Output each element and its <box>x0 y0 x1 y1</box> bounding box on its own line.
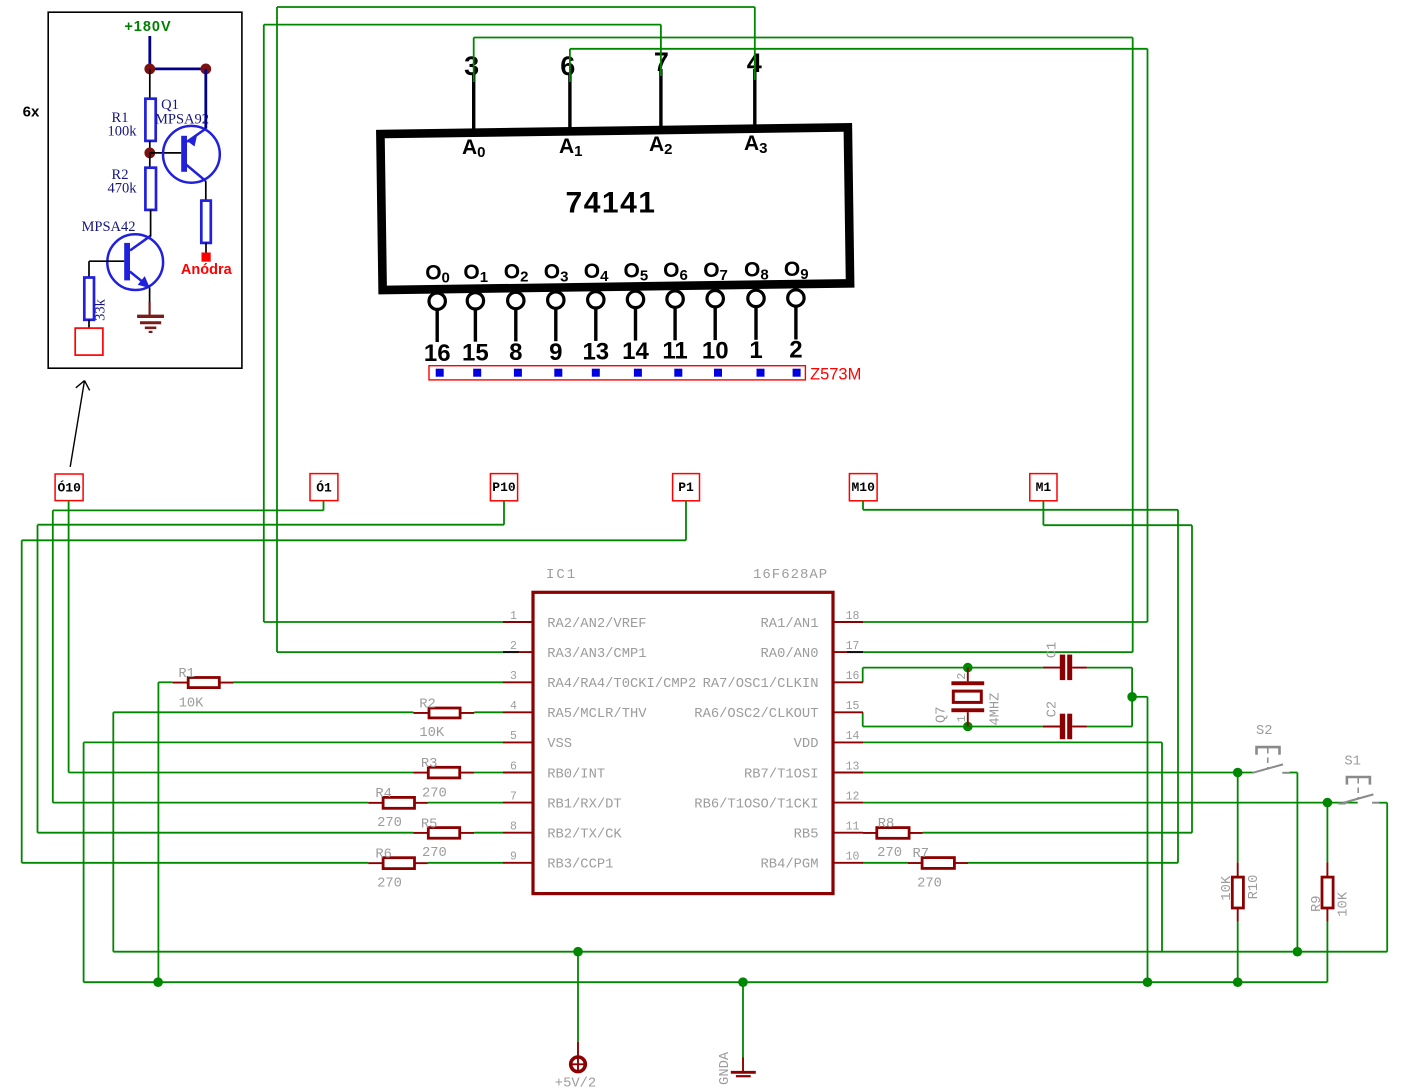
pin O6 circle <box>673 286 676 291</box>
svg-text:IC1: IC1 <box>546 567 577 583</box>
pin 10 RB4/PGM <box>833 862 863 864</box>
svg-text:270: 270 <box>377 816 402 831</box>
svg-text:Ó1: Ó1 <box>316 481 332 496</box>
wire R1 bottom to base node <box>149 141 151 153</box>
transistor Q2 MPSA42 (NPN) <box>107 234 163 290</box>
wire net A2 to RA2 <box>264 621 503 623</box>
wire +180V vertical (navy) <box>148 36 151 69</box>
pin A3 stub <box>753 69 756 130</box>
wire P1 to R6 <box>22 862 369 864</box>
svg-text:14: 14 <box>846 730 860 743</box>
wire O10 to R3 <box>69 772 414 774</box>
pin 12 RB6/T1OSO/T1CKI <box>833 802 863 804</box>
svg-text:Ó10: Ó10 <box>57 481 81 496</box>
resistor R3 270 <box>413 772 428 774</box>
wire S1 to +5V rail <box>1386 803 1388 952</box>
junction <box>1127 692 1137 702</box>
wire R9 to GND rail <box>1326 922 1328 983</box>
pin 16 RA7/OSC1/CLKIN <box>833 681 863 683</box>
junction node at R1 top <box>144 64 155 75</box>
junction <box>738 977 748 987</box>
wire R2 bottom to Q2 collector <box>150 210 152 237</box>
wire base corner down to 33k <box>88 261 90 277</box>
wire VDD row <box>863 741 1162 743</box>
svg-text:8: 8 <box>510 821 517 834</box>
anode pad (red square) <box>202 253 211 262</box>
svg-text:RB7/T1OSI: RB7/T1OSI <box>744 766 819 782</box>
svg-text:16F628AP: 16F628AP <box>753 567 828 583</box>
pin O0 circle <box>436 291 439 294</box>
junction <box>573 947 583 957</box>
svg-text:13: 13 <box>846 760 860 773</box>
svg-text:470k: 470k <box>108 181 138 197</box>
resistor R1 10K <box>173 682 189 684</box>
wire net A2 top run <box>264 24 661 26</box>
wire pin15 dropper <box>862 712 864 726</box>
node M1 <box>1030 474 1057 501</box>
pointer arrow to Ó10 <box>70 381 90 467</box>
junction <box>1323 798 1333 808</box>
Z573M connector outline <box>429 366 805 380</box>
pin 4 RA5/MCLR/THV <box>503 711 533 713</box>
svg-text:6: 6 <box>510 760 517 773</box>
svg-text:33k: 33k <box>93 298 109 321</box>
wire P10 drop to RB2 row <box>37 525 39 833</box>
resistor R5 270 <box>413 832 428 834</box>
junction <box>1143 977 1153 987</box>
pin A1 stub <box>568 73 571 132</box>
resistor R9 10K <box>1326 862 1328 877</box>
junction <box>153 977 163 987</box>
Z573M pin square 1 <box>436 369 444 377</box>
wire Q2 base left <box>89 260 124 262</box>
wire +5V rail <box>113 951 1387 953</box>
wire S2 to +5V rail <box>1296 773 1298 952</box>
wire net A3 to RA3 <box>277 651 503 653</box>
pin 3 RA4/RA4/T0CKI/CMP2 <box>503 681 533 683</box>
svg-text:10: 10 <box>702 337 729 364</box>
wire P1 drop to RB3 row <box>21 540 23 863</box>
IC 74141 body <box>380 127 850 290</box>
svg-text:6: 6 <box>560 51 575 81</box>
svg-text:RA6/OSC2/CLKOUT: RA6/OSC2/CLKOUT <box>694 706 818 722</box>
resistor R8 270 <box>863 832 877 834</box>
wire MCLR drop to +5V rail <box>112 712 114 951</box>
svg-text:R3: R3 <box>421 757 438 772</box>
anode resistor <box>201 201 211 243</box>
op-amp IC1 16F628AP body <box>533 592 833 893</box>
wire M10 drop to RB4 row <box>1177 510 1179 863</box>
wire anode resistor to anode pad <box>205 243 207 253</box>
pin 8 RB2/TX/CK <box>503 832 533 834</box>
pin 11 RB5 <box>833 832 863 834</box>
svg-text:R7: R7 <box>913 847 930 862</box>
Z573M pin square 10 <box>793 369 801 377</box>
resistor R4 270 <box>368 802 383 804</box>
pin O1 circle <box>474 290 477 293</box>
wire S2 right stub <box>1290 772 1298 774</box>
Z573M pin square 2 <box>473 369 481 377</box>
pin 2 RA3/AN3/CMP1 <box>503 651 533 653</box>
node Ó1 <box>310 474 338 501</box>
svg-text:270: 270 <box>422 846 447 861</box>
pin O4 circle <box>594 288 597 292</box>
svg-text:16: 16 <box>424 340 451 367</box>
svg-text:10K: 10K <box>419 726 445 741</box>
pin O3 circle <box>554 288 557 292</box>
svg-text:RA1/AN1: RA1/AN1 <box>761 616 819 632</box>
svg-text:270: 270 <box>377 876 402 891</box>
crystal Q7 4MHZ <box>967 668 969 682</box>
pin O7 circle <box>714 285 717 290</box>
svg-text:RB0/INT: RB0/INT <box>547 766 605 782</box>
pin 13 RB7/T1OSI <box>833 772 863 774</box>
pin 18 RA1/AN1 <box>833 621 863 623</box>
svg-text:Z573M: Z573M <box>810 366 861 384</box>
wire C1 drop to join <box>1131 668 1133 697</box>
wire M10 drop <box>862 501 864 510</box>
wire M1 right run <box>1043 524 1192 526</box>
svg-text:RA2/AN2/VREF: RA2/AN2/VREF <box>547 616 646 632</box>
svg-text:2: 2 <box>789 337 802 364</box>
resistor R2 470k <box>145 168 156 210</box>
svg-text:VDD: VDD <box>794 737 819 752</box>
svg-text:17: 17 <box>846 640 860 653</box>
pin O5 circle <box>634 287 637 292</box>
resistor 33k <box>84 278 94 320</box>
svg-text:C2: C2 <box>1046 701 1061 718</box>
wire S1 right stub <box>1379 802 1388 804</box>
wire junction to R1 <box>149 69 151 99</box>
wire M10 to R7 <box>968 862 1178 864</box>
wire RB7 row to S2 <box>863 772 1253 774</box>
wire C2 rise to join <box>1131 697 1133 727</box>
wire P1 left run <box>22 539 686 541</box>
svg-text:MPSA92: MPSA92 <box>155 112 209 128</box>
svg-text:270: 270 <box>917 876 942 891</box>
junction <box>1233 977 1243 987</box>
ground GNDA <box>742 1057 744 1072</box>
svg-text:3: 3 <box>510 670 517 683</box>
svg-text:6x: 6x <box>23 104 40 121</box>
svg-text:R9: R9 <box>1310 895 1325 912</box>
svg-text:1: 1 <box>749 337 762 364</box>
wire M1 drop <box>1042 501 1044 526</box>
pin O9 circle <box>794 284 797 290</box>
wire net A1 top run <box>570 48 1148 50</box>
junction <box>1293 947 1303 957</box>
wire OSC2 row to C2 <box>863 726 1043 728</box>
svg-text:18: 18 <box>846 610 860 623</box>
junction <box>1233 768 1243 778</box>
wire base node to Q1 base <box>150 152 181 154</box>
wire S1 to R9 <box>1326 803 1328 863</box>
svg-text:RB5: RB5 <box>794 828 819 843</box>
svg-text:15: 15 <box>462 340 489 367</box>
svg-text:8: 8 <box>509 339 522 366</box>
junction node at emitter branch <box>200 64 211 75</box>
node pad (red open square) <box>75 328 103 355</box>
wire R6 to IC pin9 <box>428 862 503 864</box>
wire C1 to cap join <box>1087 667 1132 669</box>
wire net A2 left drop to IC pin1 <box>263 25 265 622</box>
wire R2 to IC pin4 <box>474 711 503 713</box>
svg-text:R2: R2 <box>419 697 436 712</box>
wire cap join drop to GND rail <box>1147 697 1149 982</box>
svg-text:M10: M10 <box>851 480 875 495</box>
svg-text:R5: R5 <box>421 817 438 832</box>
svg-text:12: 12 <box>846 790 860 803</box>
svg-text:RB2/TX/CK: RB2/TX/CK <box>547 827 622 843</box>
wire P10 left run <box>38 524 505 526</box>
wire net A1 to RA1 <box>863 621 1148 623</box>
wire GND rail <box>84 981 1328 983</box>
svg-text:10: 10 <box>846 851 860 864</box>
svg-text:15: 15 <box>846 700 860 713</box>
svg-text:270: 270 <box>422 787 447 802</box>
svg-text:S1: S1 <box>1344 754 1361 769</box>
wire MCLR row to R2 <box>113 711 413 713</box>
wire M1 drop to RB5 row <box>1191 525 1193 833</box>
wire C2 to cap join <box>1087 726 1132 728</box>
svg-text:+5V/2: +5V/2 <box>555 1076 596 1092</box>
svg-text:R8: R8 <box>878 817 895 832</box>
wire VSS row <box>84 741 503 743</box>
wire M10 right run <box>863 509 1178 511</box>
wire R4 to IC pin7 <box>428 802 503 804</box>
svg-text:M1: M1 <box>1036 480 1052 495</box>
svg-text:R10: R10 <box>1247 875 1262 900</box>
pin 5 VSS <box>503 741 533 743</box>
wire Q1 collector down to anode resistor <box>205 181 207 201</box>
svg-text:C1: C1 <box>1046 642 1061 659</box>
svg-text:9: 9 <box>549 339 562 366</box>
Z573M pin square 7 <box>674 369 682 377</box>
svg-text:RA7/OSC1/CLKIN: RA7/OSC1/CLKIN <box>703 676 819 692</box>
svg-text:RB1/RX/DT: RB1/RX/DT <box>547 796 622 812</box>
svg-text:RA4/RA4/T0CKI/CMP2: RA4/RA4/T0CKI/CMP2 <box>547 676 696 692</box>
pin 14 VDD <box>833 741 863 743</box>
svg-text:MPSA42: MPSA42 <box>82 219 136 235</box>
svg-text:4: 4 <box>510 700 517 713</box>
svg-text:Anódra: Anódra <box>181 262 233 278</box>
wire net A0 to RA0 <box>863 651 1133 653</box>
wire VSS drop to GND rail <box>83 742 85 982</box>
svg-text:RB3/CCP1: RB3/CCP1 <box>547 857 613 873</box>
node M10 <box>849 474 877 501</box>
svg-text:7: 7 <box>510 790 517 803</box>
wire base node down to R2 <box>149 153 151 168</box>
svg-text:11: 11 <box>846 821 860 834</box>
svg-text:13: 13 <box>582 338 609 365</box>
wire R10 to GND rail <box>1237 922 1239 983</box>
wire net A3 left drop to IC pin2 <box>276 7 278 652</box>
Z573M pin square 3 <box>514 369 522 377</box>
svg-text:VSS: VSS <box>547 737 572 752</box>
wire VDD drop to +5V rail <box>1161 742 1163 951</box>
pin 6 RB0/INT <box>503 772 533 774</box>
wire O1 drop <box>323 501 325 511</box>
svg-text:RA3/AN3/CMP1: RA3/AN3/CMP1 <box>547 646 646 662</box>
svg-text:RB6/T1OSO/T1CKI: RB6/T1OSO/T1CKI <box>694 796 818 812</box>
wire emitter branch (navy) down to Q1 <box>204 69 207 129</box>
wire O10 drop to RB0 row <box>68 501 70 773</box>
wire P10 drop <box>503 501 505 525</box>
resistor R6 270 <box>368 862 383 864</box>
pin 17 RA0/AN0 <box>833 651 863 653</box>
node P10 <box>490 474 517 501</box>
pin A2 stub <box>659 69 662 131</box>
svg-text:4MHZ: 4MHZ <box>989 693 1004 726</box>
svg-text:Q7: Q7 <box>935 706 950 723</box>
driver sub-circuit frame box <box>48 12 242 368</box>
wire pin16 riser <box>862 668 864 683</box>
Z573M pin square 8 <box>714 369 722 377</box>
resistor R10 10K <box>1237 862 1239 877</box>
resistor R2 10K <box>413 712 429 714</box>
svg-text:1: 1 <box>510 610 517 623</box>
wire A1 pin6 riser <box>569 49 571 82</box>
svg-text:10K: 10K <box>1337 891 1352 917</box>
wire black overlap segment at pin 17 <box>847 651 863 653</box>
Z573M pin square 4 <box>554 369 562 377</box>
wire S2 to R10 <box>1237 773 1239 863</box>
wire O1 drop to RB1 row <box>52 510 54 802</box>
svg-text:R1: R1 <box>178 667 195 682</box>
pin O8 circle <box>754 285 757 291</box>
wire +5V symbol drop <box>577 952 579 1042</box>
wire R3 to IC pin6 <box>474 772 503 774</box>
wire black overlap segment at pin 2 <box>503 651 519 653</box>
svg-text:P10: P10 <box>492 480 516 495</box>
svg-text:16: 16 <box>846 670 860 683</box>
svg-text:5: 5 <box>510 730 517 743</box>
Z573M pin square 9 <box>757 369 765 377</box>
resistor R7 270 <box>908 862 922 864</box>
Z573M pin square 6 <box>634 369 642 377</box>
wire RB4 stub to R7 <box>862 862 908 864</box>
svg-text:74141: 74141 <box>566 187 657 220</box>
junction <box>963 722 973 732</box>
svg-text:2: 2 <box>510 640 517 653</box>
wire net A0 top run <box>474 37 1133 39</box>
capacitor C2 <box>1043 726 1060 728</box>
svg-text:100k: 100k <box>108 124 138 140</box>
svg-text:14: 14 <box>622 338 649 365</box>
svg-text:9: 9 <box>510 851 517 864</box>
wire R1 left <box>158 681 172 683</box>
wire O1 left run <box>53 509 324 511</box>
svg-text:+180V: +180V <box>124 19 171 35</box>
wire A0 pin3 riser <box>473 38 475 83</box>
svg-text:1: 1 <box>956 715 969 722</box>
wire net A1 right drop to IC pin18 <box>1147 49 1149 622</box>
wire cap join stub <box>1132 696 1147 698</box>
junction node base <box>144 148 155 159</box>
wire M1 to R8 <box>923 832 1192 834</box>
wire +180V horizontal to Q1 emitter branch <box>150 68 206 71</box>
svg-text:RB4/PGM: RB4/PGM <box>761 857 819 873</box>
wire net A3 top run <box>277 6 755 8</box>
svg-text:11: 11 <box>662 338 687 365</box>
svg-text:R6: R6 <box>375 848 392 863</box>
svg-text:10K: 10K <box>179 696 205 711</box>
resistor R1 100k <box>145 99 155 141</box>
junction <box>963 663 973 673</box>
wire R1 to IC pin3 <box>234 681 504 683</box>
wire R1 drop to GND rail <box>157 682 159 982</box>
svg-text:10K: 10K <box>1220 875 1235 901</box>
wire OSC1 row to C1 <box>863 667 1043 669</box>
power +5V/2 <box>577 1042 579 1056</box>
Z573M pin square 5 <box>592 369 600 377</box>
wire R5 to IC pin8 <box>474 832 503 834</box>
wire GNDA drop <box>742 982 744 1057</box>
pin 7 RB1/RX/DT <box>503 802 533 804</box>
svg-text:P1: P1 <box>678 480 694 495</box>
svg-text:GNDA: GNDA <box>718 1051 733 1085</box>
svg-text:RA0/AN0: RA0/AN0 <box>761 646 819 662</box>
pin 9 RB3/CCP1 <box>503 862 533 864</box>
ground symbol <box>137 302 164 332</box>
pin 1 RA2/AN2/VREF <box>503 621 533 623</box>
svg-text:270: 270 <box>877 846 902 861</box>
pin 15 RA6/OSC2/CLKOUT <box>833 711 863 713</box>
wire O1 to R4 <box>53 802 369 804</box>
wire A2 pin7 riser <box>660 25 662 76</box>
node Ó10 <box>55 474 83 501</box>
svg-text:R4: R4 <box>375 787 392 802</box>
transistor Q1 MPSA92 (PNP) <box>163 126 220 183</box>
node P1 <box>673 474 700 501</box>
wire P1 drop <box>685 501 687 541</box>
pin A0 stub <box>472 73 475 133</box>
svg-text:S2: S2 <box>1256 724 1273 739</box>
wire Q2 emitter to ground <box>149 288 151 303</box>
wire P10 to R5 <box>38 832 414 834</box>
capacitor C1 <box>1043 667 1060 669</box>
wire 33k to node pad <box>88 320 90 328</box>
pin O2 circle <box>514 289 517 292</box>
svg-text:2: 2 <box>956 673 969 680</box>
svg-text:RA5/MCLR/THV: RA5/MCLR/THV <box>547 706 647 722</box>
wire A3 pin4 riser <box>754 7 756 80</box>
wire RB6 row to S1 <box>863 802 1358 804</box>
svg-text:3: 3 <box>464 51 479 81</box>
wire net A0 right drop to IC pin17 <box>1132 38 1134 653</box>
